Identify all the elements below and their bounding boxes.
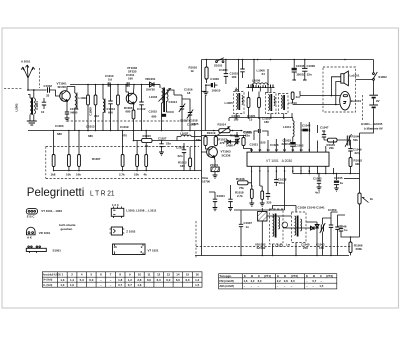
trimmer C1016: [174, 95, 185, 116]
svg-text:C1035: C1035: [296, 64, 305, 68]
capacitor C1045: [334, 173, 344, 192]
svg-text:VT 1001 A 2030: VT 1001 A 2030: [266, 159, 292, 163]
switch pinout icon: [26, 246, 46, 253]
capacitor C1033 electrolytic: [282, 137, 296, 150]
resistor bank R b: [68, 155, 71, 167]
svg-text:5,6: 5,6: [108, 78, 112, 82]
svg-text:11: 11: [147, 273, 150, 277]
potentiometer R1046: [345, 134, 360, 147]
resistor Rif1: [247, 92, 250, 119]
svg-text:13: 13: [167, 273, 171, 277]
svg-text:B: B: [313, 274, 315, 278]
wire dashed enclosure left: [195, 221, 197, 258]
svg-text:100/10: 100/10: [212, 88, 221, 92]
filter pinout icon: [110, 227, 125, 235]
coil L1003: [103, 85, 105, 132]
svg-text:4k: 4k: [144, 173, 148, 177]
capacitor C1030L: [235, 132, 239, 144]
resistor R1014: [218, 123, 231, 136]
wire dashed enclosure bottom: [196, 246, 352, 248]
svg-text:C1042: C1042: [302, 124, 311, 128]
transformer L1004: [160, 85, 168, 113]
svg-text:6,0: 6,0: [166, 278, 170, 282]
svg-text:1k: 1k: [370, 197, 374, 201]
svg-text:24: 24: [262, 72, 266, 76]
svg-text:C1012: C1012: [137, 107, 146, 111]
svg-text:1 2 3: 1 2 3: [112, 203, 119, 207]
capacitor C1046: [338, 225, 348, 236]
svg-text:C1018: C1018: [187, 123, 196, 127]
wire dashed mechanical link: [4, 88, 23, 90]
dashed box speaker jack: [323, 67, 356, 112]
wire supply stage3: [201, 135, 246, 137]
svg-text:VD1001: VD1001: [145, 77, 156, 81]
wire bus mid extension: [202, 130, 243, 132]
transistor VT1002: [126, 93, 137, 104]
svg-text:2,2: 2,2: [277, 279, 281, 283]
table left grid: [42, 272, 202, 287]
trimmer C1032: [234, 138, 240, 146]
svg-text:VD 1001: VD 1001: [39, 231, 51, 235]
svg-text:C: C: [320, 274, 322, 278]
coil L1002: [75, 93, 77, 132]
svg-text:1,5: 1,5: [195, 283, 199, 287]
svg-text:0,7: 0,7: [118, 283, 122, 287]
capacitor C1005: [41, 98, 46, 114]
resistor R1020: [196, 137, 207, 150]
capacitor C1002: [44, 84, 53, 98]
svg-text:S1002: S1002: [378, 75, 387, 79]
svg-text:1k: 1k: [191, 69, 195, 73]
battery G1001: [369, 80, 379, 121]
svg-text:U= (Volt): U= (Volt): [43, 279, 53, 282]
ground C1029: [204, 92, 209, 95]
capacitor C1006: [65, 107, 79, 118]
svg-text:180: 180: [180, 164, 185, 168]
svg-text:100/10: 100/10: [296, 73, 305, 77]
svg-text:14: 14: [176, 273, 180, 277]
capacitor C1053: [313, 173, 322, 195]
svg-text:680: 680: [88, 134, 93, 138]
resistor R1015: [133, 131, 201, 148]
svg-text:A 2001: A 2001: [21, 60, 31, 64]
wire strip tops: [273, 206, 297, 213]
svg-text:1k: 1k: [145, 144, 149, 148]
wire bottom bus left: [28, 130, 202, 132]
transformer box L1009: [266, 93, 277, 114]
wire VT1002 emitter: [133, 104, 135, 110]
svg-text:2,7k: 2,7k: [237, 194, 243, 198]
svg-text:1,6: 1,6: [137, 283, 141, 287]
svg-text:S1001: S1001: [214, 64, 223, 68]
svg-text:SF235: SF235: [58, 85, 67, 89]
ground antenna coil: [27, 121, 37, 125]
svg-text:S1001: S1001: [53, 248, 62, 252]
svg-text:22n: 22n: [355, 151, 360, 155]
table left text: [43, 273, 200, 288]
svg-text:AM (mVeff): AM (mVeff): [219, 284, 234, 288]
transistor pinout icon: [26, 209, 37, 219]
svg-text:L T R 21: L T R 21: [90, 188, 115, 197]
wire mixer bus: [70, 84, 146, 86]
svg-text:1u: 1u: [344, 228, 348, 232]
svg-text:Tonspgn.: Tonspgn.: [219, 274, 232, 278]
wire bottomright joins: [341, 236, 360, 242]
wire comb to boxes: [201, 88, 271, 93]
resistor R1044: [324, 138, 346, 150]
svg-text:33k: 33k: [355, 162, 360, 166]
svg-text:R1048: R1048: [236, 177, 245, 181]
svg-text:1,4: 1,4: [70, 278, 74, 282]
svg-text:180: 180: [232, 75, 237, 79]
svg-text:75k: 75k: [239, 186, 244, 190]
svg-text:SF235: SF235: [128, 70, 137, 74]
coil L1007: [177, 132, 201, 141]
ground R1050: [260, 203, 265, 206]
resistor R1052: [349, 156, 362, 174]
svg-text:B: B: [251, 274, 253, 278]
trimmer C1018: [182, 99, 193, 122]
wire trimmer drops: [182, 116, 190, 131]
svg-text:22n: 22n: [307, 73, 312, 77]
resistor bank R a: [52, 155, 55, 167]
svg-text:C1039 C1040 C1041: C1039 C1040 C1041: [298, 206, 326, 210]
wire battery to rail: [360, 121, 374, 193]
node bank dots: [53, 170, 147, 172]
capacitor C1051: [328, 208, 340, 242]
resistor R1013: [178, 147, 192, 171]
svg-text:Pelegrinetti: Pelegrinetti: [27, 185, 85, 199]
wire L1004 arrow: [159, 89, 171, 102]
wire audio rail: [293, 173, 360, 175]
svg-text:gesehen: gesehen: [61, 227, 73, 231]
capacitor C1042e electrolytic: [301, 122, 311, 144]
svg-text:5,3: 5,3: [80, 278, 84, 282]
capacitor C1035 electrolytic: [292, 60, 306, 80]
svg-text:50k: 50k: [353, 138, 358, 142]
wire VT1002 base: [126, 85, 129, 96]
capacitor C1015: [230, 59, 245, 79]
transistor VT1003: [201, 146, 217, 158]
svg-text:La1001: La1001: [350, 74, 360, 78]
svg-text:680: 680: [126, 110, 131, 114]
wire volume feed: [344, 178, 360, 180]
transformer box T1 bottom: [270, 209, 284, 244]
svg-text:220/10: 220/10: [282, 142, 291, 146]
wire VT1002 collector: [133, 85, 136, 94]
transformer L1001: [28, 90, 35, 121]
svg-text:E B C: E B C: [27, 214, 36, 218]
svg-text:U~ (Volt): U~ (Volt): [43, 284, 53, 287]
capacitor C1037: [234, 210, 285, 255]
svg-text:E: E: [306, 274, 308, 278]
op-amp U1 A2030: [247, 152, 329, 166]
node bus dots: [53, 130, 191, 132]
capacitor C1011 series: [127, 82, 129, 86]
IC pinout icon: [113, 244, 146, 255]
wire strip horizontals: [267, 212, 345, 228]
svg-text:L1005, L1008 ... L1011: L1005, L1008 ... L1011: [126, 209, 156, 213]
jack Bu1001: [340, 91, 362, 110]
svg-text:1,6: 1,6: [244, 279, 248, 283]
capacitor C1012: [137, 85, 146, 132]
wire bottom bus: [195, 255, 349, 257]
svg-text:22k: 22k: [329, 146, 334, 150]
svg-text:2,8: 2,8: [137, 278, 141, 282]
svg-text:0,7: 0,7: [128, 283, 132, 287]
svg-text:R1015: R1015: [143, 134, 152, 138]
svg-text:1N60: 1N60: [226, 144, 233, 148]
node bus mid dots: [213, 130, 242, 132]
svg-text:16: 16: [114, 245, 118, 249]
wire if bottoms: [229, 117, 293, 119]
coil pinout icon: [111, 203, 124, 218]
svg-text:6,0: 6,0: [291, 279, 295, 283]
svg-text:10k: 10k: [76, 173, 81, 177]
svg-text:R1019: R1019: [207, 131, 216, 135]
svg-text:C1029: C1029: [210, 77, 219, 81]
dashed box tuning bank: [46, 147, 199, 179]
svg-text:180: 180: [234, 118, 239, 122]
svg-text:Z 1002: Z 1002: [126, 229, 135, 233]
filter Z1001: [210, 163, 219, 178]
wire box to switch: [356, 78, 373, 80]
capacitor C1027: [158, 137, 171, 153]
svg-text:1,2: 1,2: [128, 278, 132, 282]
transistor VT1001: [60, 91, 71, 102]
wire mid vertical: [194, 131, 196, 171]
resistor R1003: [87, 85, 90, 132]
svg-text:10: 10: [138, 273, 142, 277]
svg-text:22n: 22n: [166, 142, 171, 146]
svg-text:C1021: C1021: [250, 143, 259, 147]
coil curl T1: [282, 222, 288, 228]
resistor R1017: [214, 137, 227, 146]
wire speaker wires: [331, 77, 340, 105]
svg-text:VT 1001... 1003: VT 1001... 1003: [41, 209, 62, 213]
wire emitter to Z1001: [213, 158, 216, 167]
diode VD1003: [309, 226, 317, 230]
svg-text:VT 1021: VT 1021: [148, 249, 159, 253]
switch S1002: [373, 60, 388, 81]
capacitor C1033 ground a: [213, 192, 226, 211]
svg-text:SC236: SC236: [222, 154, 231, 158]
wire bank bus: [54, 170, 202, 172]
svg-text:200k: 200k: [356, 247, 363, 251]
wire rail lower: [359, 204, 361, 237]
resistor bank R f: [145, 155, 148, 167]
svg-text:L1006: L1006: [252, 79, 261, 83]
svg-text:1,8: 1,8: [118, 278, 122, 282]
svg-text:C1019: C1019: [120, 125, 129, 129]
resistor R1005: [117, 85, 120, 132]
potentiometer R1053 volume: [358, 193, 374, 204]
svg-text:16: 16: [250, 148, 254, 152]
svg-text:C1009: C1009: [89, 107, 93, 116]
resistor R4n7: [291, 92, 301, 103]
svg-text:C1045: C1045: [334, 176, 343, 180]
transformer box L1005: [225, 92, 245, 114]
svg-text:1025: 1025: [259, 141, 266, 145]
wire IC bottom drops: [252, 169, 326, 210]
wire if to ic pins: [205, 95, 259, 144]
capacitor C1028: [176, 143, 186, 171]
switch S1001: [214, 58, 224, 68]
wire top bus: [202, 59, 374, 61]
switch comb contacts: [249, 85, 274, 88]
wire osc couplings: [162, 90, 175, 131]
svg-text:C1002: C1002: [44, 84, 53, 88]
capacitor C1042: [274, 176, 287, 186]
capacitor C1010 series: [108, 82, 110, 86]
svg-text:160: 160: [128, 77, 133, 81]
svg-text:13: 13: [249, 118, 253, 122]
svg-text:N600: N600: [71, 111, 78, 115]
svg-text:1u: 1u: [340, 181, 344, 185]
svg-text:L1004: L1004: [149, 95, 158, 99]
svg-text:6,0: 6,0: [258, 279, 262, 283]
svg-text:22n: 22n: [178, 154, 183, 158]
svg-text:4n7: 4n7: [315, 191, 320, 195]
transformer box T2 bottom: [292, 212, 307, 243]
wire collector up: [67, 87, 75, 94]
wire drops into bank: [54, 131, 147, 155]
capacitor C1015o electrolytic: [162, 114, 167, 117]
svg-text:(VT1): (VT1): [264, 274, 271, 278]
speaker La1001: [341, 71, 360, 86]
svg-text:R1007: R1007: [92, 157, 101, 161]
resistor R1016: [189, 60, 209, 83]
antenna A2001: [21, 65, 35, 90]
node antenna junction: [27, 89, 29, 91]
svg-text:2,8: 2,8: [284, 279, 288, 283]
diode pinout icon: [27, 227, 36, 239]
resistor bank R c: [78, 155, 81, 167]
ground C1027: [159, 152, 164, 155]
resistor R1021: [230, 134, 252, 153]
svg-text:33: 33: [46, 94, 50, 98]
svg-text:22n: 22n: [245, 134, 250, 138]
wire dashed battery edge: [362, 95, 364, 121]
svg-text:180: 180: [264, 120, 269, 124]
svg-text:12: 12: [157, 273, 161, 277]
svg-text:C: C: [258, 274, 260, 278]
capacitor C1049: [348, 140, 362, 156]
svg-text:6,0: 6,0: [147, 278, 151, 282]
wire L1006 taps: [239, 60, 269, 93]
IC pins bottom: [251, 166, 326, 173]
svg-text:L1001: L1001: [15, 103, 19, 112]
svg-text:S1001: S1001: [217, 194, 226, 198]
svg-text:220: 220: [267, 200, 272, 204]
ground emitter: [65, 118, 70, 121]
svg-text:(VT2): (VT2): [291, 274, 298, 278]
wire antenna to C1002: [28, 89, 47, 91]
svg-text:(VT3): (VT3): [326, 274, 333, 278]
resistor R1050: [235, 186, 264, 203]
svg-text:L1011: L1011: [283, 125, 291, 129]
svg-text:6,0: 6,0: [176, 278, 180, 282]
wire jack feeds: [293, 91, 340, 105]
node bus joints: [87, 84, 142, 86]
wire dashed link vertical: [39, 68, 41, 88]
capacitor C1031: [219, 60, 228, 84]
capacitor C1013: [107, 85, 116, 132]
svg-text:10k: 10k: [66, 173, 71, 177]
svg-text:1,2: 1,2: [195, 278, 199, 282]
capacitor C1034 ground b: [228, 188, 233, 211]
wire caps feed: [209, 185, 231, 192]
svg-text:SAY30: SAY30: [146, 88, 155, 92]
svg-text:10: 10: [41, 110, 45, 114]
svg-text:0,7: 0,7: [312, 279, 316, 283]
svg-text:FM (mVeff): FM (mVeff): [219, 279, 233, 283]
wire strip bottoms: [273, 242, 338, 249]
svg-text:C1004: C1004: [35, 101, 39, 110]
wire IC top feeds: [260, 138, 326, 149]
wire supply rail left: [201, 60, 203, 256]
svg-text:10k: 10k: [134, 173, 139, 177]
svg-text:C1028: C1028: [176, 146, 185, 150]
svg-text:1,5: 1,5: [319, 284, 323, 288]
svg-text:C1013: C1013: [86, 125, 95, 129]
wire dashed tuning link: [67, 120, 190, 122]
capacitor C1029 electrolytic: [205, 77, 221, 92]
svg-text:C1032: C1032: [295, 144, 304, 148]
resistor bank R e: [136, 155, 139, 167]
svg-text:E: E: [277, 274, 279, 278]
resistor bank R d: [121, 155, 124, 167]
svg-text:680: 680: [152, 115, 157, 119]
ground R1049: [249, 203, 254, 206]
resistor R1049: [250, 185, 253, 203]
capacitor C1036: [302, 60, 315, 80]
svg-text:2,7k: 2,7k: [119, 173, 125, 177]
svg-text:6,0: 6,0: [157, 278, 161, 282]
svg-text:C1027: C1027: [158, 137, 167, 141]
svg-text:C1043: C1043: [313, 177, 322, 181]
IC pins top: [250, 148, 326, 152]
table right text: [219, 274, 333, 288]
resistor R1006: [124, 106, 135, 131]
filter Z1002: [258, 208, 267, 228]
svg-text:B: B: [284, 274, 286, 278]
svg-text:L1002: L1002: [79, 96, 88, 100]
svg-text:Anschluß A2030: Anschluß A2030: [43, 273, 62, 276]
svg-text:680: 680: [57, 132, 62, 136]
capacitor C1047: [318, 125, 329, 140]
svg-text:2,2: 2,2: [251, 279, 255, 283]
svg-text:6,0: 6,0: [89, 278, 93, 282]
svg-text:16: 16: [196, 273, 200, 277]
svg-text:1,0: 1,0: [60, 283, 64, 287]
svg-text:C1014: C1014: [169, 100, 178, 104]
wire comb feed: [253, 60, 255, 83]
diode VD1002: [224, 140, 234, 148]
capacitor C1040b: [266, 190, 272, 204]
svg-text:1,3: 1,3: [60, 278, 64, 282]
svg-text:C1003: C1003: [55, 124, 64, 128]
svg-text:9V: 9V: [376, 99, 380, 103]
diode VD1004: [315, 222, 319, 242]
svg-text:Bu1001: Bu1001: [351, 99, 362, 103]
svg-text:10700: 10700: [202, 180, 210, 184]
wire right joins: [333, 140, 335, 174]
svg-text:18: 18: [187, 91, 191, 95]
svg-text:1n: 1n: [246, 225, 250, 229]
svg-text:15: 15: [186, 273, 190, 277]
svg-text:E: E: [244, 274, 246, 278]
